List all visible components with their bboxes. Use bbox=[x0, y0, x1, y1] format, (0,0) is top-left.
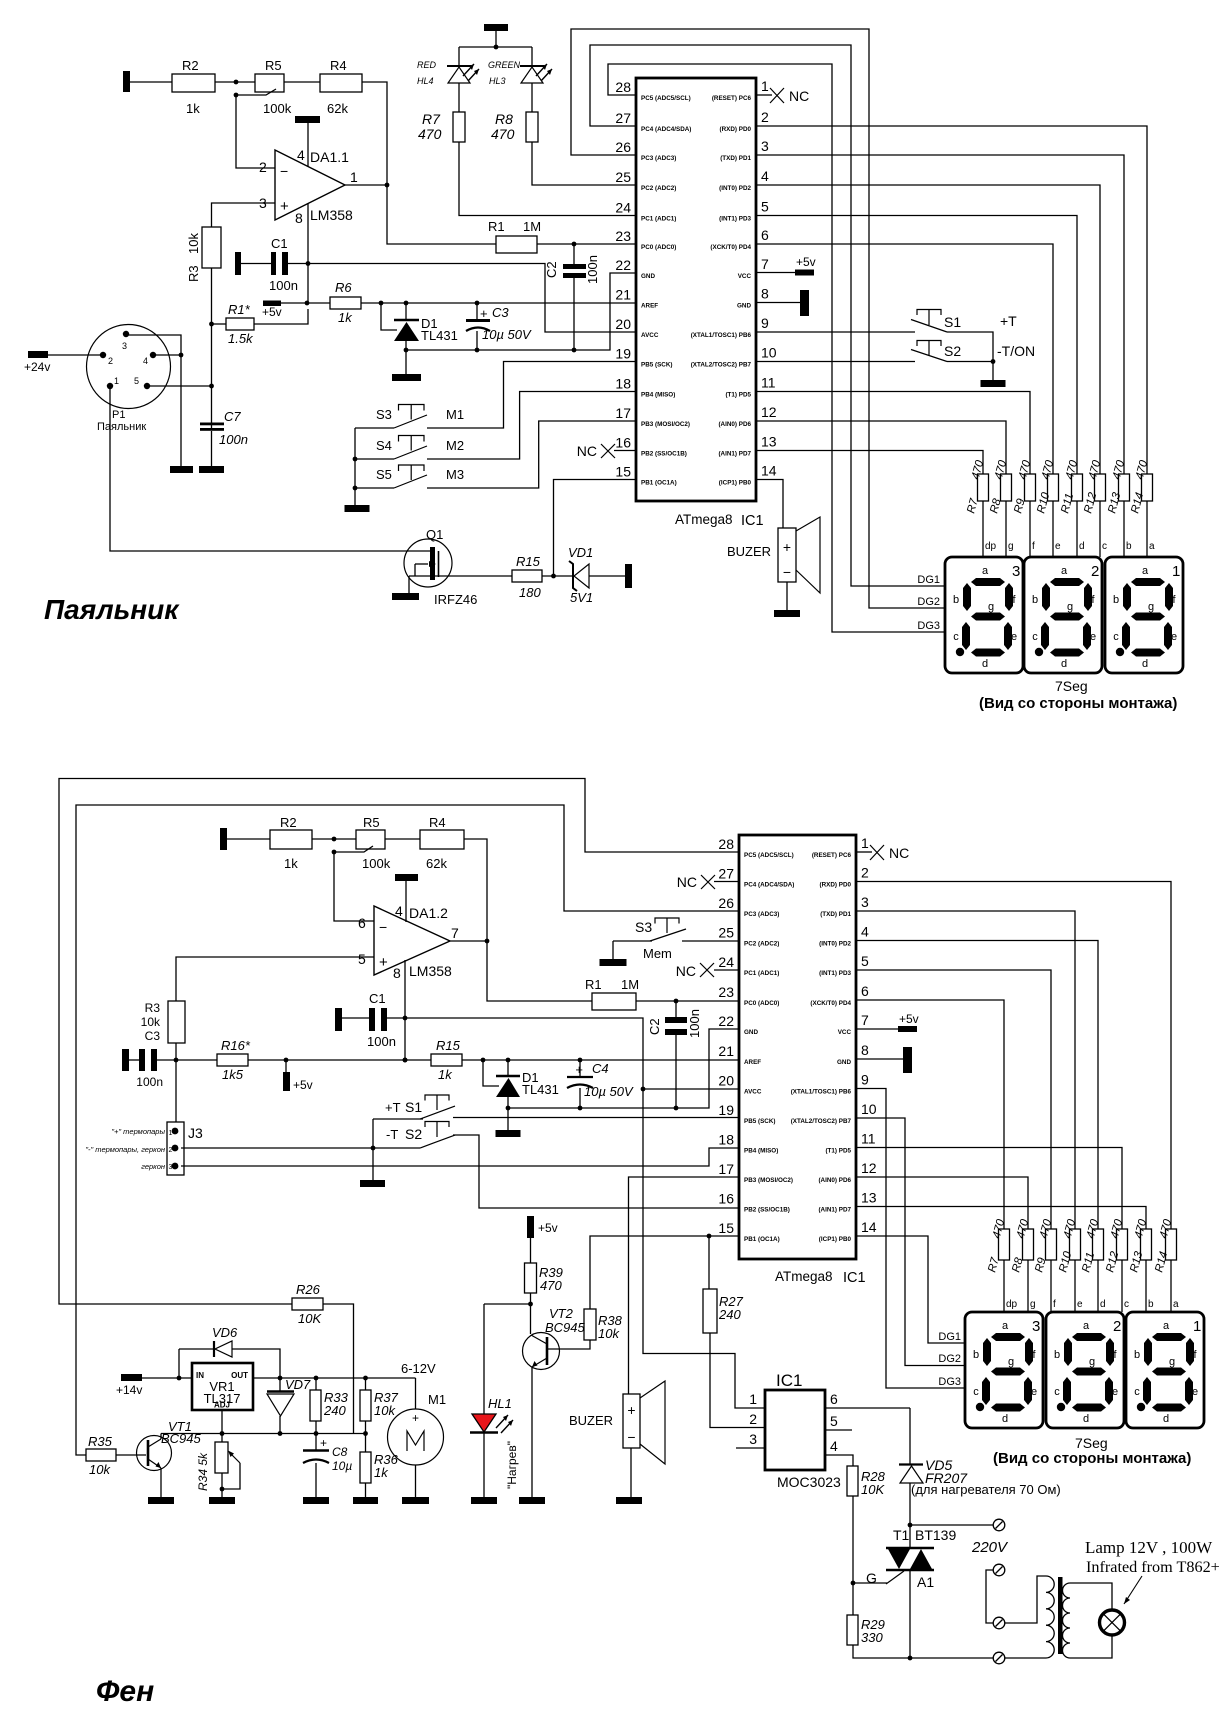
C2 plate bbox=[563, 273, 586, 278]
svg-text:PC4 (ADC4/SDA): PC4 (ADC4/SDA) bbox=[641, 126, 691, 133]
wire pin8 bbox=[756, 302, 800, 304]
wire rail bbox=[176, 1059, 217, 1061]
svg-text:19: 19 bbox=[718, 1102, 734, 1118]
svg-text:10: 10 bbox=[761, 345, 777, 361]
svg-text:1k: 1k bbox=[186, 101, 200, 116]
svg-text:PB1 (OC1A): PB1 (OC1A) bbox=[744, 1236, 780, 1243]
svg-text:TL431: TL431 bbox=[522, 1082, 559, 1097]
ground (D1) bbox=[392, 374, 421, 381]
wire to R2 bbox=[227, 838, 270, 840]
svg-text:NC: NC bbox=[789, 88, 809, 104]
svg-text:10k: 10k bbox=[89, 1462, 111, 1477]
svg-text:R5: R5 bbox=[363, 815, 380, 830]
wire pin11 to R12 (bottom) bbox=[856, 1148, 1122, 1230]
wire pin6 to R10 bbox=[756, 244, 1053, 474]
svg-text:(RESET) PC6: (RESET) PC6 bbox=[812, 852, 852, 859]
svg-text:(ICP1) PB0: (ICP1) PB0 bbox=[819, 1236, 852, 1243]
wire R11 to display bbox=[1076, 501, 1078, 557]
wire R15-VD1 bbox=[542, 575, 573, 577]
wire pin14 to DG1 (bottom) bbox=[856, 1236, 965, 1343]
wire R14 to display bbox=[1170, 1260, 1172, 1312]
wire M1 to pin19 bbox=[427, 362, 636, 429]
svg-text:DG1: DG1 bbox=[917, 574, 940, 586]
wire VT1 emitter gnd bbox=[160, 1468, 162, 1497]
wire VT1 collector bbox=[160, 1434, 162, 1440]
wire M2 to pin18 bbox=[427, 392, 636, 460]
resistor R11 470 (segment) bbox=[1093, 1229, 1104, 1260]
power bar (LEDs) bbox=[484, 24, 508, 31]
wire R9 to display bbox=[1029, 501, 1031, 557]
svg-text:100n: 100n bbox=[585, 255, 600, 284]
junctions on rail (bottom) bbox=[284, 1058, 289, 1063]
wire S2 to pin16 bbox=[453, 1135, 739, 1208]
wire C2 bottom bbox=[675, 1035, 677, 1108]
wire S5 left bbox=[355, 487, 394, 489]
svg-text:DG3: DG3 bbox=[917, 620, 940, 632]
svg-text:100n: 100n bbox=[136, 1075, 163, 1089]
svg-text:S1: S1 bbox=[405, 1099, 422, 1115]
svg-text:+: + bbox=[480, 306, 488, 321]
svg-text:10k: 10k bbox=[186, 233, 201, 254]
wire MOC pin5 stub bbox=[825, 1429, 852, 1431]
junction output/R4 (bottom) bbox=[485, 939, 490, 944]
svg-text:PC5 (ADC5/SCL): PC5 (ADC5/SCL) bbox=[744, 852, 794, 859]
svg-text:(XTAL2/TOSC2) PB7: (XTAL2/TOSC2) PB7 bbox=[691, 362, 752, 369]
ground (switches) bbox=[345, 505, 370, 512]
svg-text:1.5k: 1.5k bbox=[228, 331, 254, 346]
svg-text:10k: 10k bbox=[141, 1015, 161, 1029]
svg-text:+: + bbox=[575, 1062, 583, 1077]
resistor R2 (bottom) bbox=[270, 830, 312, 849]
wire C1 left bbox=[241, 263, 271, 265]
svg-text:9: 9 bbox=[861, 1072, 869, 1088]
ground (S1/S2) bbox=[981, 380, 1006, 387]
wire R1* right up to rail bbox=[254, 309, 308, 324]
wire R4 to op-amp output bbox=[362, 82, 387, 185]
junction R2/R5 (bottom) bbox=[332, 837, 337, 842]
svg-text:470: 470 bbox=[491, 126, 515, 142]
svg-text:A1: A1 bbox=[917, 1574, 934, 1590]
wire +5v to R6 bbox=[281, 302, 330, 304]
ground (C8) bbox=[303, 1497, 329, 1504]
svg-text:R3: R3 bbox=[145, 1001, 161, 1015]
svg-text:Lamp 12V , 100W: Lamp 12V , 100W bbox=[1085, 1538, 1213, 1557]
svg-text:100n: 100n bbox=[269, 278, 298, 293]
svg-text:PB4 (MISO): PB4 (MISO) bbox=[641, 392, 675, 399]
wire Q1 gnd bbox=[408, 576, 410, 593]
wire R39 bottom bbox=[530, 1293, 532, 1304]
svg-text:15: 15 bbox=[718, 1220, 734, 1236]
wire TL431 ref (bottom) bbox=[483, 1060, 499, 1086]
svg-text:+T: +T bbox=[385, 1100, 401, 1115]
svg-text:8: 8 bbox=[761, 286, 769, 302]
svg-text:+: + bbox=[783, 539, 791, 555]
wire Q1 to R15 bbox=[409, 575, 512, 577]
svg-text:4: 4 bbox=[395, 903, 403, 919]
wire terminal jumper bbox=[986, 1570, 994, 1623]
svg-text:5V1: 5V1 bbox=[570, 590, 593, 605]
svg-text:Mem: Mem bbox=[643, 946, 672, 961]
svg-text:C3: C3 bbox=[492, 305, 509, 320]
resistor R8 470 (LED) bbox=[526, 112, 538, 142]
svg-text:21: 21 bbox=[615, 287, 631, 303]
svg-text:22: 22 bbox=[718, 1013, 734, 1029]
junction pin15/R27 bbox=[707, 1234, 712, 1239]
wire R11 to display bbox=[1097, 1260, 1099, 1312]
svg-text:c: c bbox=[1124, 1299, 1129, 1310]
svg-text:23: 23 bbox=[615, 228, 631, 244]
wire TL431 ref bbox=[381, 303, 397, 330]
svg-text:b: b bbox=[1148, 1299, 1154, 1310]
svg-text:DA1.2: DA1.2 bbox=[409, 905, 448, 921]
ground (P1) bbox=[170, 466, 193, 473]
svg-text:20: 20 bbox=[718, 1073, 734, 1089]
svg-text:C8: C8 bbox=[332, 1445, 348, 1459]
resistor R8 470 (segment) bbox=[1001, 474, 1012, 501]
wire R34 wiper link bbox=[222, 1463, 240, 1489]
svg-text:R7: R7 bbox=[422, 111, 441, 127]
junctions rail right (bottom) bbox=[481, 1058, 486, 1063]
svg-text:PB3 (MOSI/OC2): PB3 (MOSI/OC2) bbox=[744, 1177, 793, 1184]
wire R34 gnd bbox=[221, 1473, 223, 1497]
wire R8 to display bbox=[1027, 1260, 1029, 1312]
svg-text:GND: GND bbox=[744, 1029, 758, 1036]
svg-text:S3: S3 bbox=[376, 407, 392, 422]
wire S4 left bbox=[355, 458, 394, 460]
svg-text:Фен: Фен bbox=[96, 1675, 154, 1708]
svg-text:BC945: BC945 bbox=[545, 1320, 586, 1335]
svg-text:d: d bbox=[1079, 541, 1085, 552]
junction P1-4 bbox=[179, 353, 184, 358]
resistor R26 10K bbox=[292, 1298, 323, 1310]
wire C3 bottom bbox=[476, 331, 478, 350]
wire VD6 in bbox=[179, 1348, 214, 1350]
resistor R9 470 (segment) bbox=[1025, 474, 1036, 501]
wire pin26 to R35 bbox=[76, 805, 739, 1455]
wire output to R1 bbox=[387, 185, 496, 244]
svg-text:62k: 62k bbox=[327, 101, 348, 116]
junction C2 bbox=[572, 242, 577, 247]
junctions gnd rail (bottom) bbox=[578, 1106, 583, 1111]
svg-text:ATmega8: ATmega8 bbox=[775, 1269, 833, 1284]
R37 body bbox=[360, 1390, 371, 1421]
svg-text:Infrated from T862+: Infrated from T862+ bbox=[1086, 1558, 1220, 1576]
resistor R29 330 bbox=[847, 1615, 858, 1645]
wire pin12 to R8 bbox=[756, 421, 1006, 474]
resistor R28 10K bbox=[847, 1466, 858, 1496]
ground (buzzer bottom) bbox=[616, 1497, 642, 1504]
svg-text:DG1: DG1 bbox=[938, 1331, 961, 1343]
wire pin5 to R9 (bottom) bbox=[856, 970, 1051, 1229]
wire J3-2 to S2 bbox=[181, 1147, 420, 1149]
D1 triangle bbox=[394, 322, 419, 341]
wire gnd rail to pin22 (bottom) bbox=[508, 1029, 739, 1108]
wire pin11 to R9 bbox=[756, 392, 1030, 475]
wire R27 to MOC pin2 bbox=[710, 1333, 765, 1428]
wire +5v to R39 bbox=[530, 1238, 532, 1263]
wire switch common bbox=[354, 428, 356, 505]
wire R7 to pin24 bbox=[459, 142, 636, 216]
resistor R5 (bottom) bbox=[356, 830, 385, 849]
wire ground rail to pin22 bbox=[406, 273, 636, 350]
triac triangle B bbox=[910, 1549, 932, 1569]
svg-text:1: 1 bbox=[169, 1130, 173, 1137]
svg-text:PC2 (ADC2): PC2 (ADC2) bbox=[641, 185, 676, 192]
svg-text:10k: 10k bbox=[598, 1326, 620, 1341]
svg-text:−: − bbox=[379, 919, 387, 935]
wire pin2 to R14 (bottom) bbox=[856, 882, 1171, 1230]
wire C8 gnd bbox=[315, 1463, 317, 1497]
LED HL3 GREEN bbox=[520, 65, 544, 67]
wire R7 to display bbox=[1003, 1260, 1005, 1312]
svg-text:470: 470 bbox=[540, 1278, 562, 1293]
svg-text:23: 23 bbox=[718, 984, 734, 1000]
C2 plate bbox=[563, 264, 586, 269]
svg-text:10µ 50V: 10µ 50V bbox=[482, 327, 532, 342]
transformer core bbox=[1058, 1577, 1063, 1654]
wire pin3 to R13 bbox=[756, 155, 1124, 474]
svg-text:24: 24 bbox=[718, 954, 734, 970]
wire pin5 to R11 bbox=[756, 216, 1077, 475]
wire pin9 to S1 bbox=[756, 331, 915, 333]
svg-text:2: 2 bbox=[761, 109, 769, 125]
Q1 source link bbox=[414, 564, 416, 576]
svg-text:1: 1 bbox=[350, 169, 358, 185]
wire pin7 bbox=[756, 272, 795, 274]
D1 triangle (bottom) bbox=[496, 1078, 520, 1097]
svg-text:(TXD) PD1: (TXD) PD1 bbox=[720, 155, 751, 162]
VT1 emitter arrow bbox=[156, 1462, 162, 1468]
svg-text:10K: 10K bbox=[861, 1482, 885, 1497]
svg-text:12: 12 bbox=[861, 1160, 877, 1176]
svg-text:AVCC: AVCC bbox=[744, 1089, 762, 1096]
switch S1 bbox=[917, 310, 941, 316]
svg-text:"+" термопары: "+" термопары bbox=[111, 1127, 165, 1136]
wire pin1 stub bbox=[856, 851, 872, 853]
wire D1 top bbox=[405, 303, 407, 320]
svg-text:240: 240 bbox=[323, 1403, 346, 1418]
resistor R15 180 bbox=[512, 570, 542, 582]
svg-text:16: 16 bbox=[718, 1191, 734, 1207]
wire D1 bottom bbox=[405, 341, 407, 350]
svg-text:7: 7 bbox=[451, 925, 459, 941]
svg-text:15: 15 bbox=[615, 464, 631, 480]
digit 1 (bottom) bbox=[1126, 1312, 1204, 1428]
svg-text:+: + bbox=[412, 1411, 419, 1425]
wire to transformer primary bbox=[1005, 1576, 1047, 1623]
svg-text:LM358: LM358 bbox=[310, 207, 353, 223]
wire P1-3 to gnd bbox=[126, 335, 181, 466]
wire P1-5 to R3 net bbox=[147, 385, 212, 387]
wire pin15 to R38 bbox=[590, 1236, 739, 1309]
resistor R13 470 (segment) bbox=[1119, 474, 1130, 501]
wire R12 to display bbox=[1099, 501, 1101, 557]
svg-text:S2: S2 bbox=[944, 343, 961, 359]
wire pin4 bbox=[307, 123, 309, 167]
wire R36 gnd bbox=[365, 1483, 367, 1497]
diode VD1 5V1 zener bbox=[569, 561, 577, 591]
wire P1-1 to Q1 gate bbox=[110, 386, 431, 551]
C1 terminal bar bbox=[235, 252, 241, 275]
wire S1 out bbox=[947, 332, 993, 380]
svg-text:f: f bbox=[1032, 541, 1035, 552]
svg-text:100n: 100n bbox=[219, 432, 248, 447]
svg-text:1M: 1M bbox=[523, 219, 541, 234]
svg-text:10: 10 bbox=[861, 1101, 877, 1117]
svg-text:-T: -T bbox=[386, 1127, 398, 1142]
svg-text:S5: S5 bbox=[376, 467, 392, 482]
wire pin14 to buzzer bbox=[756, 480, 783, 529]
resistor R16* 1k5 bbox=[217, 1054, 248, 1066]
svg-text:3: 3 bbox=[749, 1431, 757, 1447]
wire R10 to display bbox=[1052, 501, 1054, 557]
wire to VD5 bbox=[909, 1408, 911, 1464]
svg-text:1: 1 bbox=[114, 376, 119, 386]
junctions on +5v rail bbox=[379, 301, 384, 306]
wire R37 top bbox=[365, 1378, 367, 1390]
svg-text:2: 2 bbox=[169, 1147, 173, 1154]
wire R13 to display bbox=[1145, 1260, 1147, 1312]
wire R2-R5 bbox=[215, 81, 255, 83]
junctions on 6-12V rail bbox=[278, 1376, 283, 1381]
wire gate bbox=[853, 1582, 887, 1584]
junction pin15 net bbox=[551, 574, 556, 579]
svg-text:PC5 (ADC5/SCL): PC5 (ADC5/SCL) bbox=[641, 95, 691, 102]
svg-text:C2: C2 bbox=[544, 261, 559, 278]
svg-text:PB1 (OC1A): PB1 (OC1A) bbox=[641, 480, 677, 487]
svg-text:R1: R1 bbox=[585, 977, 602, 992]
wire R35 to base bbox=[116, 1454, 146, 1456]
connector P1 (Паяльник plug) bbox=[87, 325, 171, 409]
Q1 arrow line bbox=[415, 563, 428, 565]
wire output bbox=[450, 940, 487, 942]
svg-text:(AIN1) PD7: (AIN1) PD7 bbox=[818, 1207, 851, 1214]
svg-text:R16*: R16* bbox=[221, 1038, 251, 1053]
svg-text:3: 3 bbox=[169, 1164, 173, 1171]
wire triac top bbox=[909, 1525, 911, 1547]
resistor R1* 1.5k bbox=[226, 318, 254, 330]
wire R5 wiper bbox=[334, 846, 373, 852]
wire R5 wiper bbox=[236, 89, 276, 95]
svg-text:(T1) PD5: (T1) PD5 bbox=[725, 392, 751, 399]
svg-text:470: 470 bbox=[418, 126, 442, 142]
svg-text:IC1: IC1 bbox=[741, 513, 764, 529]
svg-text:RED: RED bbox=[417, 60, 437, 70]
wire buzzer gnd (bottom) bbox=[630, 1448, 632, 1497]
wire output to R1 (bottom) bbox=[487, 941, 592, 1001]
svg-text:Паяльник: Паяльник bbox=[44, 594, 180, 625]
svg-text:PC0 (ADC0): PC0 (ADC0) bbox=[744, 1000, 779, 1007]
wire pin5 to R3 (bottom) bbox=[176, 957, 374, 1001]
lamp note arrow bbox=[1124, 1576, 1142, 1604]
svg-text:1: 1 bbox=[1193, 1318, 1201, 1335]
svg-text:C2: C2 bbox=[647, 1018, 662, 1035]
wire C4 bottom bbox=[579, 1088, 581, 1108]
svg-text:f: f bbox=[1053, 1299, 1056, 1310]
ground (R36) bbox=[353, 1497, 378, 1504]
wire pin7 (bottom) bbox=[856, 1028, 898, 1030]
svg-text:(RXD) PD0: (RXD) PD0 bbox=[720, 126, 752, 133]
C1 plate bbox=[381, 1008, 387, 1031]
svg-text:R4: R4 bbox=[429, 815, 446, 830]
resistor R10 470 (segment) bbox=[1048, 474, 1059, 501]
junctions on pin8 line bbox=[306, 261, 311, 266]
wire MOC pin6 out bbox=[825, 1407, 910, 1409]
wire R33 bottom bbox=[315, 1421, 317, 1434]
wire R8 to display bbox=[1005, 501, 1007, 557]
svg-text:5: 5 bbox=[830, 1413, 838, 1429]
svg-text:VCC: VCC bbox=[838, 1029, 852, 1036]
Q1 arrow head bbox=[429, 561, 436, 567]
gnd bar (pin8 bottom) bbox=[903, 1047, 912, 1073]
svg-text:c: c bbox=[1102, 541, 1107, 552]
svg-text:M2: M2 bbox=[446, 438, 464, 453]
svg-text:5: 5 bbox=[134, 376, 139, 386]
wire HL1 gnd bbox=[483, 1432, 485, 1497]
resistor R11 470 (segment) bbox=[1072, 474, 1083, 501]
svg-text:3: 3 bbox=[1012, 563, 1020, 580]
resistor R4 bbox=[320, 74, 362, 92]
svg-text:1k: 1k bbox=[284, 856, 298, 871]
svg-text:−: − bbox=[627, 1429, 635, 1445]
svg-text:(AIN1) PD7: (AIN1) PD7 bbox=[718, 451, 751, 458]
resistor R7 470 (segment) bbox=[999, 1229, 1010, 1260]
wire pin2 to R14 bbox=[756, 126, 1147, 474]
resistor R12 470 (segment) bbox=[1095, 474, 1106, 501]
svg-text:1k: 1k bbox=[438, 1067, 453, 1082]
wire R2 left bbox=[130, 81, 172, 83]
svg-text:(RESET) PC6: (RESET) PC6 bbox=[712, 95, 752, 102]
J3 body bbox=[167, 1122, 184, 1175]
svg-text:a: a bbox=[1149, 541, 1155, 552]
svg-text:d: d bbox=[1100, 1299, 1106, 1310]
svg-text:7: 7 bbox=[761, 256, 769, 272]
wire HL3 top bbox=[531, 47, 533, 66]
wire C3 top bbox=[476, 303, 478, 320]
svg-text:28: 28 bbox=[718, 836, 734, 852]
R36 body bbox=[360, 1452, 371, 1483]
wire +5v stub bbox=[285, 1060, 287, 1072]
digit 1 bbox=[1105, 557, 1183, 673]
svg-text:26: 26 bbox=[718, 895, 734, 911]
svg-text:AVCC: AVCC bbox=[641, 332, 659, 339]
svg-text:e: e bbox=[1055, 541, 1061, 552]
wire rail to pin21 (bottom) bbox=[462, 1059, 739, 1061]
transformer primary bbox=[1046, 1576, 1054, 1658]
wire pin17 to buzzer bbox=[629, 1177, 740, 1394]
svg-text:1: 1 bbox=[861, 835, 869, 851]
svg-text:4: 4 bbox=[143, 356, 148, 366]
svg-text:R15: R15 bbox=[516, 554, 541, 569]
wire R27 top bbox=[708, 1236, 710, 1289]
wire pin8 down bbox=[307, 203, 309, 303]
svg-text:18: 18 bbox=[718, 1132, 734, 1148]
wire pin3 to R3 bbox=[212, 203, 276, 227]
triac triangle A bbox=[888, 1549, 910, 1569]
switch S3 Mem bbox=[655, 918, 679, 924]
svg-text:1k: 1k bbox=[338, 310, 353, 325]
svg-text:27: 27 bbox=[615, 110, 631, 126]
svg-text:-T/ON: -T/ON bbox=[997, 343, 1035, 359]
wire R37 bottom bbox=[365, 1421, 367, 1434]
wire R1 to pin23 bbox=[537, 243, 636, 245]
svg-text:220V: 220V bbox=[971, 1539, 1009, 1556]
svg-text:+24v: +24v bbox=[24, 360, 50, 374]
+5v bar (pin7 bottom) bbox=[898, 1026, 917, 1032]
wire pin26 to DG2 bbox=[571, 29, 944, 608]
svg-text:R34 5k: R34 5k bbox=[196, 1452, 210, 1491]
7-segment display (bottom), digit 3 bbox=[965, 1312, 1043, 1428]
